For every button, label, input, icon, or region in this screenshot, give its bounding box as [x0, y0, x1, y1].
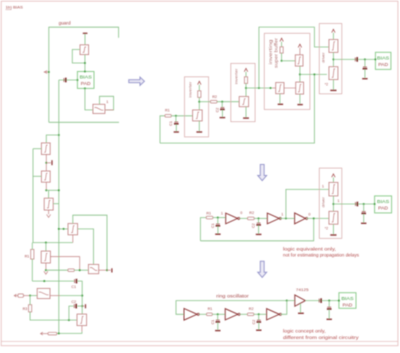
- wire super buffer out1 to driver upper gate: [259, 27, 329, 88]
- svg-text:BIAS: BIAS: [80, 75, 92, 80]
- blue arrow right after guard: [129, 77, 145, 85]
- transistor inv1: [193, 110, 203, 121]
- inverter T4 bottom row: [184, 309, 197, 321]
- capacitor series top pad: [354, 58, 356, 62]
- wire R3 bottom to Q8 gate row: [30, 312, 77, 320]
- svg-text:0: 0: [308, 213, 310, 217]
- wire R2 to T2: [254, 217, 267, 219]
- wire Q2 bottom to rail: [46, 189, 59, 191]
- svg-text:1b) BIAS: 1b) BIAS: [6, 4, 24, 9]
- wire driver1 mid: [332, 52, 334, 66]
- resistor load super buffer: [280, 47, 283, 53]
- wire Q4 right to Q6 top: [78, 229, 94, 265]
- wire T6 out to feedback: [281, 301, 287, 315]
- resistor load inv2: [244, 77, 247, 84]
- ground arrow below Q5: [44, 271, 48, 274]
- pin Q2 bottom: [45, 182, 47, 190]
- wire vcc to sb upper: [299, 48, 301, 55]
- pad P4 BIAS PAD bottom row: [339, 293, 356, 309]
- wire Q3 top: [48, 190, 50, 198]
- svg-text:BIAS: BIAS: [377, 56, 389, 61]
- svg-text:driver: driver: [320, 52, 325, 63]
- svg-text:R2: R2: [249, 307, 254, 311]
- stub terminal at C2 node: [82, 305, 84, 307]
- junction at Q6 left: [79, 269, 81, 271]
- junction Q5 bottom: [45, 269, 47, 271]
- vcc arrow inverter 2: [244, 68, 247, 71]
- svg-text:PAD: PAD: [378, 206, 388, 211]
- wire driver2 lower to ground: [332, 224, 334, 234]
- junction row C1 left: [43, 280, 45, 282]
- junction Q2 bottom node: [45, 189, 47, 191]
- svg-text:C2: C2: [71, 300, 76, 304]
- wire inv1 drain to ground: [198, 121, 200, 131]
- wire driver2 mid: [332, 196, 334, 211]
- inverter T2 middle row: [267, 213, 279, 224]
- wire vcc to driver2 upper: [332, 177, 334, 182]
- resistor R3: [29, 305, 32, 312]
- svg-text:guard: guard: [59, 20, 72, 25]
- wire R2 to T6: [254, 313, 267, 315]
- resistor R2 middle row: [248, 217, 255, 220]
- wire resistor to transistor inv2: [245, 83, 247, 96]
- svg-text:C1: C1: [71, 285, 76, 289]
- wire C2 branch: [69, 306, 74, 320]
- ground sb lower-right: [297, 104, 302, 106]
- junction pad P2 left: [374, 58, 376, 60]
- svg-text:C2: C2: [252, 320, 256, 325]
- junction C2 branch on gate row: [68, 319, 70, 321]
- pin Q3 bottom: [48, 210, 50, 214]
- ground shunt middle pad: [361, 222, 366, 224]
- svg-text:logic concept only,: logic concept only,: [283, 328, 326, 333]
- svg-text:PAD: PAD: [378, 62, 388, 67]
- frame inner bottom line: [1, 340, 398, 342]
- off-page arrow bottom left: [41, 332, 43, 335]
- supply bar above transistor M1: [83, 32, 88, 34]
- svg-text:R2: R2: [249, 211, 254, 215]
- block inverter 1: [185, 77, 209, 137]
- wire inv1 out to R2: [199, 101, 210, 103]
- wire driver1 lower to ground: [332, 80, 334, 90]
- wire T1 to R2: [240, 217, 248, 219]
- block driver middle row: [319, 168, 342, 238]
- vcc arrow sb upper: [298, 44, 301, 47]
- wire inv2 drain to ground: [245, 107, 247, 118]
- capacitor on guard pad wire: [63, 78, 65, 82]
- pin 74125 enable: [300, 304, 302, 313]
- svg-text:C1: C1: [169, 121, 173, 126]
- blue arrow down to logic equivalent: [258, 165, 267, 181]
- svg-text:1: 1: [337, 199, 339, 203]
- transistor M1: [80, 45, 89, 55]
- svg-text:C1: C1: [211, 320, 215, 325]
- junction C1 middle row: [217, 217, 219, 219]
- svg-text:C2: C2: [252, 223, 256, 228]
- wire sb upper source to output: [299, 66, 301, 82]
- svg-text:R1: R1: [165, 109, 170, 113]
- pin Q1 bottom: [45, 155, 47, 172]
- wire Q7 out to column: [60, 295, 82, 297]
- wire main vertical rail: [58, 80, 60, 333]
- junction pad P1 left: [76, 79, 78, 81]
- pad P2 BIAS PAD top row: [375, 52, 391, 69]
- wire T5 to R2: [240, 313, 247, 315]
- wire ring to 74125: [287, 300, 295, 302]
- ground C1 top row: [174, 131, 179, 133]
- ground inv1: [196, 131, 202, 133]
- svg-text:*2: *2: [325, 226, 328, 230]
- wire M1 drain to supply: [84, 34, 86, 45]
- transistor inv2: [239, 97, 248, 107]
- wire Q2 gate: [33, 175, 41, 177]
- svg-text:driver: driver: [320, 196, 325, 207]
- ground C2 middle row: [256, 233, 262, 235]
- transistor sb lower-left: [276, 83, 284, 94]
- ground driver1: [330, 89, 336, 91]
- stub terminal at Q1-Q2 node: [46, 162, 51, 164]
- resistor R1 top row: [165, 115, 171, 118]
- wire feedback bottom middle row: [200, 218, 313, 240]
- wire R1 top: [31, 243, 33, 250]
- capacitor shunt middle pad: [363, 204, 365, 211]
- transistor driver2 lower: [329, 211, 338, 224]
- junction pad P1 bottom: [84, 87, 86, 89]
- resistor horizontal in gnd row: [68, 269, 74, 272]
- wire load resistor to node sb: [281, 53, 283, 61]
- junction Q7 input: [29, 295, 31, 297]
- junction driver2 output: [332, 203, 334, 205]
- wire into Q7: [30, 295, 37, 297]
- junction rail at Q4 gate: [58, 228, 60, 230]
- svg-text:logic equivalent only,: logic equivalent only,: [283, 246, 336, 251]
- wire Q3 gate to rail: [53, 203, 59, 205]
- inverter T3 middle row: [295, 213, 306, 224]
- wire vcc to resistor inv1: [198, 85, 200, 91]
- svg-text:different from original circui: different from original circuitry: [283, 335, 360, 340]
- wire oscillator feedback bottom top-row: [160, 74, 314, 143]
- pin Q7 right: [50, 295, 60, 297]
- junction C2 tap top row: [221, 101, 223, 103]
- wire vcc to driver upper: [332, 33, 334, 40]
- transistor driver1 upper: [329, 40, 338, 53]
- junction pad P1 top: [84, 70, 86, 72]
- svg-text:0: 0: [240, 211, 242, 215]
- transistor Q1: [41, 143, 50, 155]
- wire guard ring bottom: [49, 121, 119, 123]
- transistor sb upper: [295, 55, 303, 66]
- vcc arrow super buffer load: [280, 38, 283, 41]
- capacitor C1 left chain: [74, 279, 76, 283]
- pin Q5 right: [50, 257, 79, 271]
- capacitor C1 middle row: [217, 218, 219, 224]
- transistor Q5: [41, 251, 50, 263]
- transistor Q7: [37, 288, 50, 298]
- transistor sb lower-right: [296, 82, 304, 94]
- junction ring output tap: [286, 300, 288, 302]
- junction T3 output feedback tap: [313, 217, 315, 219]
- ground C2 bottom row: [256, 329, 261, 331]
- wire resistor to transistor inv1: [198, 97, 200, 110]
- wire C2 right: [77, 305, 82, 307]
- capacitor C2 bottom row: [258, 314, 260, 320]
- resistor R2 top row: [210, 100, 217, 103]
- wire R1 to inverter1: [171, 115, 192, 117]
- wire M1 gate loop: [72, 50, 85, 64]
- wire 74125 out to pad: [305, 300, 339, 302]
- ground C1 middle row: [215, 233, 220, 235]
- wire sb node to upper transistor gate: [282, 60, 296, 62]
- svg-text:PAD: PAD: [343, 302, 353, 307]
- capacitor series bottom pad: [318, 299, 320, 303]
- junction M1 source node: [84, 62, 86, 64]
- capacitor series middle pad: [355, 202, 357, 206]
- vcc arrow driver middle: [332, 174, 335, 177]
- ground driver2: [330, 234, 336, 236]
- wire T2 out to driver2 upper gate: [286, 189, 329, 218]
- transistor M2: [93, 104, 105, 113]
- svg-text:1: 1: [106, 99, 108, 104]
- wire driver1 out to pad: [333, 58, 375, 60]
- wire gnd row to resistor: [46, 269, 68, 271]
- junction sb-out feedback tap: [313, 73, 315, 75]
- capacitor C1 bottom row: [217, 314, 219, 319]
- wire row C1 cluster B: [32, 280, 74, 282]
- svg-text:C2: C2: [215, 108, 219, 113]
- stub terminal right of Q6: [107, 269, 111, 271]
- pad P1 BIAS PAD: [77, 72, 94, 89]
- svg-text:inverter: inverter: [234, 68, 239, 85]
- wire R2 to inverter2: [217, 101, 239, 103]
- ground sb lower-left: [278, 103, 283, 105]
- transistor driver1 lower: [329, 67, 338, 80]
- pin M2 right: [105, 109, 114, 111]
- wire Q1 gate: [33, 148, 41, 150]
- capacitor C2 middle row: [258, 218, 260, 222]
- svg-text:1: 1: [221, 212, 223, 216]
- junction node row 242: [45, 242, 47, 244]
- wire inv2 out to super buffer input: [246, 87, 273, 89]
- pin Q8 bottom: [81, 326, 83, 332]
- capacitor C2 top row: [221, 102, 223, 107]
- svg-text:R2: R2: [212, 95, 217, 99]
- buffer 74125: [295, 295, 306, 306]
- blue arrow down to ring oscillator: [258, 261, 267, 277]
- wire sb output right: [300, 73, 327, 75]
- wire driver2 out to pad: [333, 203, 374, 205]
- ground arrow below Q3: [47, 214, 51, 217]
- junction sb output: [299, 73, 301, 75]
- junction super buffer input 2: [269, 87, 271, 89]
- wire sb lower-left to ground: [279, 94, 281, 104]
- vcc arrow inverter 1: [198, 81, 201, 84]
- inverter T1 middle row: [226, 213, 238, 224]
- wire M2 gate-source loop: [100, 96, 114, 110]
- junction shunt cap bottom pad: [328, 300, 330, 302]
- capacitor C1 top row: [175, 116, 177, 122]
- wire rail to Q1 top: [46, 135, 59, 143]
- pin sb input to lower left transistor: [273, 87, 276, 89]
- vcc arrow driver top: [332, 29, 335, 32]
- junction column at C2 row: [81, 305, 83, 307]
- transistor Q2: [41, 171, 50, 182]
- transistor Q3: [44, 198, 53, 210]
- junction T2 feedforward: [285, 217, 287, 219]
- svg-text:R3: R3: [23, 307, 28, 311]
- wire pad P1 left to cap: [59, 79, 78, 81]
- ground 74125 enable: [298, 312, 304, 314]
- junction C1 tap top row: [175, 115, 177, 117]
- junction pad P4 left: [338, 300, 340, 302]
- wire T2 out: [280, 217, 295, 219]
- resistor R1 bottom row: [207, 313, 213, 316]
- wire Q8 bottom to off-page: [57, 332, 82, 334]
- wire C1 to down column: [78, 281, 83, 314]
- wire gate rail for Q1 Q2: [33, 149, 73, 243]
- svg-text:ring oscillator: ring oscillator: [216, 294, 249, 299]
- junction super buffer input: [258, 87, 260, 89]
- svg-text:inverter: inverter: [187, 81, 192, 98]
- transistor Q6: [88, 264, 98, 273]
- junction sb internal node: [281, 60, 283, 62]
- junction C2 bottom row: [258, 313, 260, 315]
- junction Q6 right: [106, 269, 108, 271]
- svg-text:*2: *2: [325, 83, 328, 87]
- svg-text:R1: R1: [206, 211, 211, 215]
- svg-text:1: 1: [281, 213, 283, 217]
- wire pad P1 bottom to M2: [85, 88, 93, 110]
- junction C2 middle row: [257, 217, 259, 219]
- inverter T5 bottom row: [225, 309, 238, 320]
- wire vcc to resistor inv2: [245, 72, 247, 77]
- svg-text:not for estimating propagation: not for estimating propagation delays: [283, 252, 359, 257]
- svg-text:BIAS: BIAS: [377, 199, 389, 204]
- resistor R1 left chain: [31, 249, 34, 259]
- ground C1 bottom row: [215, 330, 220, 332]
- junction driver1 output: [332, 58, 334, 60]
- wire input corner middle row: [200, 218, 206, 241]
- svg-text:super buffer: super buffer: [273, 37, 278, 68]
- junction C1 bottom row: [217, 313, 219, 315]
- junction shunt cap top pad: [364, 58, 366, 60]
- wire Q5 top: [45, 243, 47, 252]
- capacitor shunt top pad: [364, 59, 366, 66]
- wire T4 to R1: [199, 313, 206, 315]
- wire R1 to T5: [212, 313, 225, 315]
- junction pad P3 left: [374, 203, 376, 205]
- ground inv2: [243, 117, 249, 119]
- svg-text:1: 1: [322, 184, 324, 188]
- junction rail at Q2 node: [58, 189, 60, 191]
- capacitor shunt bottom pad: [328, 301, 330, 307]
- junction inv1 output node: [198, 101, 200, 103]
- transistor Q8: [77, 314, 87, 326]
- svg-text:R1: R1: [25, 254, 30, 258]
- pad P3 BIAS PAD middle row: [375, 196, 392, 213]
- wire sb lower-right to ground: [299, 94, 301, 104]
- resistor R2 bottom row: [247, 313, 253, 316]
- svg-text:R1: R1: [208, 307, 213, 311]
- junction inv2 output node: [245, 87, 247, 89]
- svg-text:PAD: PAD: [81, 81, 91, 86]
- off-page arrow input left: [14, 294, 16, 297]
- wire guard ring top: [49, 27, 119, 122]
- resistor R1 middle row: [206, 216, 213, 219]
- svg-text:C1: C1: [211, 223, 215, 228]
- ground C2 top row: [220, 117, 226, 119]
- wire R3 top: [29, 296, 31, 305]
- wire M1 source down: [84, 55, 86, 72]
- wire R1 bottom: [31, 259, 33, 281]
- ground shunt top pad: [362, 78, 367, 80]
- inverter T6 bottom row: [267, 309, 280, 320]
- pin link lower-left to lower-right: [284, 87, 296, 89]
- wire resistor to Q6: [74, 269, 88, 271]
- wire Q4 top loop to right column: [73, 215, 107, 270]
- ground shunt bottom pad: [327, 318, 332, 320]
- wire T3 out to driver2: [307, 217, 329, 219]
- capacitor C2 left chain: [73, 304, 75, 308]
- pin Q4 bottom: [72, 235, 74, 243]
- junction Q1-Q2 node: [45, 162, 47, 164]
- junction column at Q7 out: [81, 295, 83, 297]
- wire R1 to gate T1: [213, 217, 226, 219]
- resistor load inv1: [198, 91, 201, 98]
- off-page arrow on guard left edge: [44, 71, 47, 74]
- junction rail bottom: [58, 332, 60, 334]
- transistor Q4: [68, 224, 78, 235]
- svg-text:BIAS: BIAS: [341, 296, 353, 301]
- wire ring feedback top: [176, 301, 287, 315]
- pin Q6 right: [99, 269, 107, 271]
- junction second at Q4 gate: [63, 228, 65, 230]
- svg-text:74125: 74125: [296, 287, 309, 292]
- wire vcc to load resistor sb: [281, 42, 283, 47]
- block inverting super buffer: [264, 33, 310, 109]
- block inverter 2: [231, 63, 255, 121]
- block driver top row: [319, 24, 342, 94]
- junction guard-arrow: [48, 71, 50, 73]
- junction rail top tap: [58, 134, 60, 136]
- wire input corner to R1 top row: [160, 116, 165, 143]
- transistor driver2 upper: [329, 182, 338, 196]
- wire Q4 gate from rail: [59, 228, 68, 230]
- pin Q5 bottom: [45, 263, 47, 270]
- junction shunt cap middle pad: [363, 203, 365, 205]
